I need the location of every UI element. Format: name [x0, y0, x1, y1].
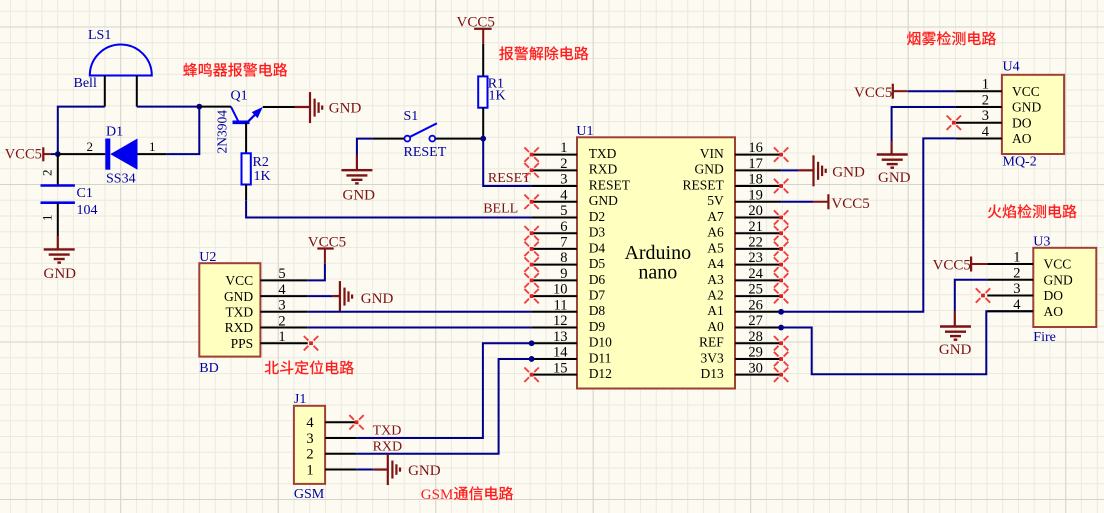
svg-text:3: 3 — [306, 431, 313, 447]
svg-text:VCC5: VCC5 — [5, 147, 42, 163]
wire Q1 collector node to Q1 — [199, 106, 231, 108]
U3 pin 2 GND — [987, 265, 1073, 287]
svg-text:GND: GND — [1012, 100, 1041, 115]
junction at U1 pin 26 — [778, 309, 784, 315]
ground at J1 pin 1 — [374, 454, 441, 485]
U2 pin 5 VCC — [225, 266, 307, 288]
U1 pin 17 GND — [695, 156, 782, 177]
capacitor C1 — [41, 154, 75, 236]
ground at U1 pin 17 — [798, 155, 865, 186]
svg-text:TXD: TXD — [373, 424, 402, 439]
no-connect X at U1 pin 10 — [524, 289, 538, 303]
svg-text:2: 2 — [87, 139, 94, 154]
wire U4 pin1 to VCC5 — [908, 90, 956, 92]
svg-text:D7: D7 — [589, 287, 606, 302]
power port VCC5 (U1 pin 19) — [813, 194, 870, 212]
wire buzzer right leg to Q1 collector node — [137, 106, 200, 108]
svg-text:1: 1 — [560, 140, 567, 156]
wire J1 pin 3 (TXD net) to U1 pin 13 — [356, 343, 531, 438]
svg-text:2N3904: 2N3904 — [215, 110, 230, 154]
U1 pin 12 D9 — [532, 313, 606, 334]
wire node to diode pin 2 — [58, 153, 106, 155]
svg-text:Q1: Q1 — [231, 89, 248, 104]
junction node VCC5/D1/C1 — [55, 151, 61, 157]
no-connect X at J1 pin 4 — [349, 415, 363, 429]
wire R1 bottom to junction — [482, 108, 484, 139]
U1 pin 21 A6 — [707, 219, 781, 240]
power port VCC5 (above U2) — [308, 234, 346, 264]
svg-text:Fire: Fire — [1033, 330, 1056, 345]
svg-text:VCC: VCC — [1044, 257, 1072, 272]
no-connect X at U1 pin 8 — [524, 257, 538, 271]
svg-text:VCC5: VCC5 — [854, 85, 892, 101]
svg-text:5: 5 — [278, 266, 285, 282]
U1 pin 25 A2 — [707, 282, 781, 303]
junction node buzzer/Q1 — [196, 104, 202, 110]
svg-text:A7: A7 — [707, 209, 724, 224]
wire U1 pin 27 (A0) to U3 AO — [781, 311, 1033, 374]
U1 pin 4 GND — [532, 187, 619, 208]
svg-text:LS1: LS1 — [88, 28, 111, 43]
U4 pin 1 VCC — [956, 77, 1040, 99]
svg-text:2: 2 — [306, 447, 313, 463]
svg-text:GND: GND — [939, 342, 972, 358]
svg-text:26: 26 — [748, 297, 763, 313]
U1 pin 23 A4 — [707, 250, 781, 271]
J1 pin 3 — [306, 431, 356, 447]
svg-text:GND: GND — [44, 266, 77, 282]
svg-text:A1: A1 — [707, 303, 724, 318]
U1 pin 20 A7 — [707, 203, 781, 224]
svg-text:S1: S1 — [404, 109, 419, 124]
no-connect X at U1 pin 20 — [774, 210, 788, 224]
ground at U2 pin 4 — [333, 281, 394, 312]
no-connect X at U3 pin 3 DO — [976, 288, 990, 302]
svg-text:4: 4 — [278, 282, 286, 298]
svg-text:GND: GND — [224, 289, 253, 304]
U2 pin 4 GND — [224, 282, 308, 304]
svg-text:A0: A0 — [707, 319, 724, 334]
svg-text:DO: DO — [1012, 115, 1032, 130]
U4 pin 4 AO — [956, 124, 1032, 146]
svg-text:2: 2 — [982, 92, 989, 108]
svg-text:A5: A5 — [707, 240, 724, 255]
svg-text:SS34: SS34 — [106, 171, 136, 186]
no-connect X at U1 pin 23 — [774, 257, 788, 271]
svg-text:5: 5 — [560, 203, 567, 219]
svg-text:1: 1 — [306, 462, 313, 478]
svg-text:VCC5: VCC5 — [933, 258, 971, 274]
svg-text:D12: D12 — [589, 366, 612, 381]
U2 pin 2 RXD — [225, 313, 308, 335]
svg-text:U3: U3 — [1033, 235, 1050, 250]
svg-text:4: 4 — [982, 124, 990, 140]
svg-text:D9: D9 — [589, 319, 606, 334]
buzzer LS1 — [90, 44, 152, 106]
svg-text:A2: A2 — [707, 287, 724, 302]
no-connect X at U1 pin 9 — [524, 273, 538, 287]
svg-text:AO: AO — [1044, 304, 1064, 319]
wire VCC5 port to node — [51, 153, 58, 155]
no-connect X at U2 pin 1 PPS — [304, 336, 318, 350]
wire S1 right to junction — [435, 138, 483, 140]
svg-text:1K: 1K — [489, 89, 506, 104]
svg-text:J1: J1 — [294, 392, 306, 407]
svg-text:RESET: RESET — [488, 171, 531, 186]
annotation 火焰检测电路 — [988, 204, 1077, 218]
annotation 北斗定位电路 — [265, 360, 354, 374]
svg-text:2: 2 — [1013, 265, 1020, 281]
svg-text:2: 2 — [560, 156, 567, 172]
switch S1 — [404, 123, 437, 141]
svg-text:3: 3 — [560, 172, 567, 188]
U2 pin 3 TXD — [225, 298, 307, 320]
svg-text:2: 2 — [278, 313, 285, 329]
svg-text:TXD: TXD — [589, 146, 617, 161]
svg-text:8: 8 — [560, 250, 567, 266]
svg-text:TXD: TXD — [225, 305, 253, 320]
svg-text:D10: D10 — [589, 335, 612, 350]
svg-text:GND: GND — [343, 187, 376, 203]
svg-text:BELL: BELL — [483, 201, 518, 216]
resistor R2 — [242, 153, 251, 184]
svg-text:30: 30 — [748, 360, 763, 376]
svg-text:17: 17 — [748, 156, 763, 172]
svg-text:VCC5: VCC5 — [457, 14, 495, 30]
svg-text:GND: GND — [589, 193, 618, 208]
no-connect X at U1 pin 24 — [774, 273, 788, 287]
svg-text:104: 104 — [77, 203, 98, 218]
wire U2 pin 4 to ground — [308, 295, 333, 297]
junction at U1 pin 13 — [529, 340, 535, 346]
no-connect X at U1 pin 28 — [774, 336, 788, 350]
svg-text:3V3: 3V3 — [701, 350, 724, 365]
svg-text:D1: D1 — [106, 125, 123, 140]
power port VCC5 (U4) — [854, 84, 908, 101]
svg-text:D2: D2 — [589, 209, 606, 224]
svg-text:11: 11 — [554, 297, 568, 313]
U1 pin 5 D2 — [532, 203, 606, 224]
U1 pin 9 D6 — [532, 266, 606, 287]
svg-text:D13: D13 — [701, 366, 724, 381]
U1 pin 2 RXD — [532, 156, 618, 177]
no-connect X at U1 pin 21 — [774, 226, 788, 240]
junction S1/R1/RESET — [480, 136, 486, 142]
svg-text:29: 29 — [748, 345, 763, 361]
U2 pin 1 PPS — [231, 329, 308, 351]
junction at U1 pin 14 — [529, 356, 535, 362]
svg-text:AO: AO — [1012, 131, 1032, 146]
IC U4 body (MQ-2) — [1002, 75, 1064, 154]
U1 pin 16 VIN — [700, 140, 781, 161]
J1 pin 2 — [306, 447, 356, 463]
svg-text:nano: nano — [638, 262, 677, 284]
svg-text:14: 14 — [553, 345, 568, 361]
svg-text:VCC: VCC — [1012, 84, 1040, 99]
J1 pin 1 — [306, 462, 356, 478]
svg-text:12: 12 — [553, 313, 568, 329]
svg-text:A3: A3 — [707, 272, 724, 287]
svg-text:PPS: PPS — [231, 336, 254, 351]
svg-text:C1: C1 — [77, 186, 93, 201]
wire J1 pin 1 to ground — [356, 469, 374, 471]
wire U2 pin 3 TXD to U1 pin 11 — [308, 311, 532, 313]
svg-text:A6: A6 — [707, 225, 724, 240]
svg-text:21: 21 — [748, 219, 763, 235]
svg-text:3: 3 — [1013, 281, 1020, 297]
wire S1 left to ground — [357, 139, 404, 155]
svg-text:D6: D6 — [589, 272, 606, 287]
svg-text:MQ-2: MQ-2 — [1003, 154, 1037, 169]
U1 pin 7 D4 — [532, 235, 606, 256]
op IC U1 body (Arduino nano) — [577, 137, 735, 388]
ground at U3 pin2 — [939, 311, 972, 358]
svg-text:D3: D3 — [589, 225, 606, 240]
U1 pin 6 D3 — [532, 219, 606, 240]
U4 pin 2 GND — [956, 92, 1042, 114]
IC U2 body (BD module) — [199, 263, 260, 356]
no-connect X at U4 pin 3 DO — [947, 116, 961, 130]
power port VCC5 (left) — [5, 147, 51, 163]
U1 pin 22 A5 — [707, 235, 781, 256]
svg-text:RXD: RXD — [589, 162, 618, 177]
svg-text:GND: GND — [408, 463, 441, 479]
svg-text:REF: REF — [699, 335, 724, 350]
svg-text:25: 25 — [748, 282, 763, 298]
svg-text:4: 4 — [306, 415, 314, 431]
svg-text:VCC: VCC — [225, 273, 253, 288]
svg-text:GND: GND — [361, 291, 394, 307]
ground at Q1 emitter — [295, 92, 362, 123]
U1 pin 30 D13 — [701, 360, 782, 381]
no-connect X at U1 pin 2 — [524, 163, 538, 177]
svg-text:Bell: Bell — [74, 76, 97, 91]
no-connect X at U1 pin 4 — [524, 195, 538, 209]
svg-text:27: 27 — [748, 313, 763, 329]
svg-text:VCC5: VCC5 — [831, 196, 869, 212]
no-connect X at U1 pin 18 — [774, 179, 788, 193]
svg-text:D5: D5 — [589, 256, 606, 271]
U4 pin 3 DO — [956, 108, 1032, 130]
svg-text:D11: D11 — [589, 350, 612, 365]
svg-text:GND: GND — [832, 165, 865, 181]
wire U3 pin2 to ground — [955, 280, 988, 311]
svg-text:3: 3 — [278, 298, 285, 314]
svg-text:1: 1 — [149, 139, 156, 154]
svg-text:1: 1 — [278, 329, 285, 345]
svg-text:1: 1 — [982, 77, 989, 93]
svg-text:R2: R2 — [253, 155, 269, 170]
svg-text:U1: U1 — [576, 124, 593, 139]
svg-text:VCC5: VCC5 — [308, 234, 346, 250]
ground at U4 pin2 — [877, 141, 911, 186]
no-connect X at U1 pin 15 — [524, 368, 538, 382]
U3 pin 3 DO — [987, 281, 1063, 303]
U1 pin 1 TXD — [532, 140, 617, 161]
annotation 报警解除电路 — [499, 46, 588, 60]
J1 pin 4 — [306, 415, 356, 431]
ground below C1 — [44, 236, 77, 282]
connector J1 body (GSM) — [294, 406, 325, 484]
U1 pin 13 D10 — [532, 329, 613, 350]
svg-text:7: 7 — [560, 235, 567, 251]
resistor R1 — [478, 76, 487, 107]
svg-text:10: 10 — [553, 282, 568, 298]
svg-text:1: 1 — [1013, 250, 1020, 266]
svg-text:3: 3 — [982, 108, 989, 124]
U1 pin 14 D11 — [532, 345, 612, 366]
U1 pin 28 REF — [699, 329, 781, 350]
svg-text:4: 4 — [560, 187, 568, 203]
power port VCC5 (U3) — [933, 257, 988, 274]
wire U4 pin2 to ground — [892, 107, 956, 141]
svg-text:D4: D4 — [589, 240, 606, 255]
wire U2 pin 5 to VCC5 — [308, 264, 325, 280]
svg-text:5V: 5V — [707, 193, 724, 208]
svg-text:24: 24 — [748, 266, 763, 282]
svg-text:18: 18 — [748, 172, 763, 188]
svg-text:2: 2 — [40, 170, 55, 177]
U1 pin 11 D8 — [532, 297, 606, 318]
svg-text:GSM: GSM — [421, 487, 454, 503]
annotation 烟雾检测电路 — [907, 31, 996, 45]
no-connect X at U1 pin 30 — [774, 368, 788, 382]
svg-text:1K: 1K — [254, 169, 271, 184]
wire U1 pin 26 (A1) to U4 AO — [781, 138, 956, 311]
svg-text:DO: DO — [1044, 288, 1064, 303]
power port VCC5 (top, above R1) — [457, 14, 495, 44]
ground below S1 — [341, 155, 375, 203]
wire U2 pin 2 RXD to U1 pin 12 — [308, 327, 532, 329]
svg-text:19: 19 — [748, 187, 763, 203]
svg-text:VIN: VIN — [700, 146, 724, 161]
no-connect X at U1 pin 1 — [524, 147, 538, 161]
svg-text:A4: A4 — [707, 256, 724, 271]
wire VCC5 to R1 — [482, 44, 484, 77]
svg-text:RESET: RESET — [404, 145, 447, 160]
svg-text:20: 20 — [748, 203, 763, 219]
svg-text:6: 6 — [560, 219, 567, 235]
diode D1 — [105, 139, 166, 170]
svg-text:GND: GND — [878, 170, 911, 186]
svg-text:9: 9 — [560, 266, 567, 282]
svg-text:22: 22 — [748, 235, 763, 251]
U1 pin 8 D5 — [532, 250, 606, 271]
IC U3 body (Fire) — [1033, 248, 1096, 327]
wire diode pin1 up to collector node — [167, 107, 200, 155]
svg-text:13: 13 — [553, 329, 568, 345]
wire Q1 emitter to ground — [263, 106, 295, 108]
U1 pin 15 D12 — [532, 360, 612, 381]
wire R2 bottom (BELL net) to U1 pin 5 — [246, 185, 531, 218]
no-connect X at U1 pin 7 — [524, 242, 538, 256]
annotation 蜂鸣器报警电路 — [183, 63, 287, 77]
svg-text:23: 23 — [748, 250, 763, 266]
no-connect X at U1 pin 22 — [774, 242, 788, 256]
svg-text:16: 16 — [748, 140, 763, 156]
svg-text:U4: U4 — [1003, 60, 1020, 75]
transistor Q1 — [231, 107, 263, 154]
junction at U1 pin 27 — [778, 325, 784, 331]
svg-text:GND: GND — [1044, 272, 1073, 287]
U1 pin 29 3V3 — [701, 345, 782, 366]
svg-text:RESET: RESET — [589, 177, 631, 192]
U1 pin 3 RESET — [532, 172, 631, 193]
no-connect X at U1 pin 29 — [774, 352, 788, 366]
svg-text:GND: GND — [329, 101, 362, 117]
svg-text:U2: U2 — [199, 250, 216, 265]
wire junction to U1 pin 3 (RESET net) — [483, 139, 531, 186]
U3 pin 1 VCC — [987, 250, 1071, 272]
svg-text:Arduino: Arduino — [624, 242, 691, 264]
svg-text:GSM: GSM — [294, 487, 325, 502]
wire U1 pin 19 to VCC5 — [781, 201, 813, 203]
no-connect X at U1 pin 16 — [774, 147, 788, 161]
U1 pin 27 A0 — [707, 313, 781, 334]
U1 pin 18 RESET — [683, 172, 782, 193]
U1 pin 24 A3 — [707, 266, 781, 287]
wire J1 pin 2 (RXD net) to U1 pin 14 — [356, 359, 531, 454]
svg-text:RXD: RXD — [373, 440, 403, 455]
wire U1 pin 17 GND to ground — [781, 169, 798, 171]
svg-text:RXD: RXD — [225, 320, 254, 335]
U3 pin 4 AO — [987, 297, 1063, 319]
wire buzzer left leg down-left to VCC5 node — [58, 107, 105, 155]
no-connect X at U1 pin 6 — [524, 226, 538, 240]
svg-text:GND: GND — [695, 162, 724, 177]
svg-text:4: 4 — [1013, 297, 1021, 313]
svg-text:28: 28 — [748, 329, 763, 345]
svg-text:BD: BD — [199, 361, 218, 376]
svg-text:RESET: RESET — [683, 177, 725, 192]
svg-text:D8: D8 — [589, 303, 606, 318]
svg-text:1: 1 — [40, 215, 55, 222]
svg-text:15: 15 — [553, 360, 568, 376]
U1 pin 10 D7 — [532, 282, 606, 303]
U1 pin 26 A1 — [707, 297, 781, 318]
U1 pin 19 5V — [707, 187, 781, 208]
no-connect X at U1 pin 25 — [774, 289, 788, 303]
